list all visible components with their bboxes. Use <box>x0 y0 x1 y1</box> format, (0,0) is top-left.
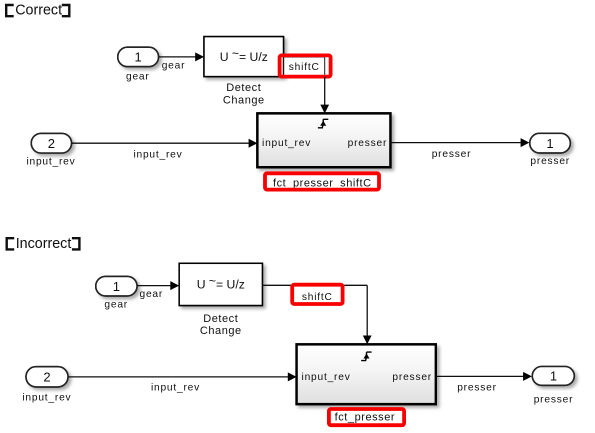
svg-text:Detect: Detect <box>226 82 261 94</box>
svg-text:1: 1 <box>134 50 141 65</box>
svg-text:presser: presser <box>392 372 432 383</box>
block Detect Change (Incorrect) <box>179 263 262 305</box>
svg-text:input_rev: input_rev <box>22 393 71 404</box>
svg-text:Incorrect: Incorrect <box>16 236 72 252</box>
signal label box shiftC (Correct) <box>284 57 325 77</box>
wire Detect Change to corner (Incorrect) <box>263 284 367 286</box>
wire shiftC down to trigger port (Correct) <box>320 77 329 114</box>
svg-text:input_rev: input_rev <box>262 138 311 149</box>
svg-text:input_rev: input_rev <box>302 372 351 383</box>
section title Correct <box>5 3 71 19</box>
svg-text:U ~= U/z: U ~= U/z <box>197 274 245 291</box>
block label Detect Change (Incorrect) <box>200 313 242 337</box>
svg-text:presser: presser <box>534 394 574 405</box>
signal label background shiftC (Incorrect) <box>293 285 343 305</box>
svg-text:shiftC: shiftC <box>302 292 333 303</box>
inport 1 gear (Correct) <box>118 47 159 66</box>
svg-text:U ~= U/z: U ~= U/z <box>220 46 268 63</box>
inport 1 gear (Incorrect) <box>96 276 137 296</box>
outport 1 presser (Incorrect) <box>532 367 574 386</box>
trigger symbol (Incorrect subsystem) <box>361 352 371 361</box>
svg-text:gear: gear <box>162 60 186 71</box>
wire gear to Detect Change (Incorrect) <box>137 281 179 290</box>
svg-text:Correct: Correct <box>15 3 62 19</box>
svg-text:1: 1 <box>546 136 553 151</box>
svg-text:presser: presser <box>348 138 388 149</box>
svg-text:presser: presser <box>530 156 570 167</box>
svg-text:2: 2 <box>43 370 50 385</box>
svg-text:presser: presser <box>432 149 472 160</box>
svg-text:input_rev: input_rev <box>151 383 200 394</box>
svg-text:fct_presser: fct_presser <box>335 411 395 423</box>
svg-text:shiftC: shiftC <box>289 62 320 73</box>
svg-text:2: 2 <box>48 136 55 151</box>
red highlight around fct_presser (Incorrect) <box>329 409 404 425</box>
outport 1 presser (Correct) <box>530 133 571 153</box>
svg-text:gear: gear <box>126 72 150 83</box>
inport 2 input_rev (Incorrect) <box>26 367 68 387</box>
red highlight around fct_presser_shiftC (Correct) <box>265 173 379 189</box>
wire input_rev to subsystem (Incorrect) <box>68 372 296 381</box>
red highlight around shiftC (Correct) <box>280 55 331 76</box>
wire gear to Detect Change (Correct) <box>159 52 204 61</box>
svg-text:input_rev: input_rev <box>133 149 182 160</box>
red highlight around shiftC (Incorrect) <box>292 285 342 304</box>
svg-text:Change: Change <box>200 325 242 337</box>
block Detect Change (Correct) <box>204 37 284 77</box>
svg-text:gear: gear <box>140 289 164 300</box>
svg-text:presser: presser <box>457 382 497 393</box>
svg-text:1: 1 <box>550 368 557 383</box>
svg-text:Change: Change <box>223 95 265 107</box>
svg-text:Detect: Detect <box>203 313 238 325</box>
subsystem fct_presser (Incorrect) <box>297 344 436 404</box>
trigger symbol (Correct subsystem) <box>318 119 328 128</box>
wire input_rev to subsystem (Correct) <box>72 139 258 148</box>
svg-text:input_rev: input_rev <box>26 156 75 167</box>
wire presser to outport (Correct) <box>390 138 529 147</box>
svg-text:fct_presser_shiftC: fct_presser_shiftC <box>273 177 372 189</box>
wire corner down to trigger port (Incorrect) <box>363 285 372 344</box>
inport 2 input_rev (Correct) <box>31 133 71 153</box>
wire presser to outport (Incorrect) <box>436 372 532 381</box>
block label Detect Change (Correct) <box>223 82 265 106</box>
section title Incorrect <box>6 236 81 252</box>
subsystem fct_presser_shiftC (Correct) <box>257 113 390 167</box>
svg-text:gear: gear <box>104 300 128 311</box>
svg-text:1: 1 <box>113 279 120 294</box>
